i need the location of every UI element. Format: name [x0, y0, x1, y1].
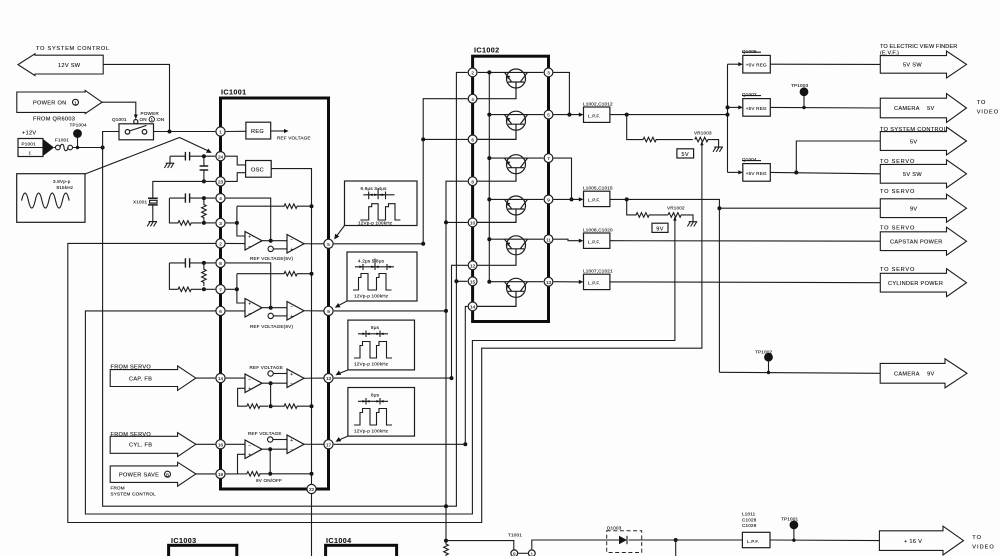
svg-text:−: − [290, 382, 293, 388]
node op1 out [269, 239, 273, 243]
ref voltage input circle section1 [268, 246, 273, 251]
svg-text:12Vp-p 100kHz: 12Vp-p 100kHz [354, 362, 389, 367]
connector arrow 9V to servo [880, 189, 967, 222]
wire pin13 to LPF4 [554, 281, 581, 283]
svg-text:C1028: C1028 [742, 517, 757, 522]
svg-text:9: 9 [513, 551, 516, 556]
test point TP1001 [781, 517, 799, 542]
wire cylinder power [610, 281, 880, 284]
svg-text:+: + [248, 234, 251, 240]
connector arrow cylinder power [880, 267, 967, 297]
CYL.FB op-amp U1G [245, 440, 262, 459]
svg-text:−: − [290, 448, 293, 454]
svg-text:10: 10 [470, 221, 476, 226]
wire pin5 to LPF1 [554, 114, 581, 116]
svg-text:17: 17 [326, 442, 332, 447]
svg-text:L.P.F.: L.P.F. [747, 539, 759, 544]
svg-text:B: B [166, 472, 169, 477]
svg-text:24: 24 [218, 154, 224, 159]
pin 9 [324, 306, 333, 315]
svg-text:TP1003: TP1003 [791, 83, 809, 88]
svg-text:2: 2 [219, 242, 222, 247]
svg-text:+5V REG: +5V REG [746, 106, 767, 111]
resistor CAP.FB second [271, 404, 310, 409]
regulator Q1004 [728, 157, 771, 181]
resistor to VR1002 [627, 199, 668, 217]
svg-text:13: 13 [326, 376, 332, 381]
scope waveform box 8us lower [348, 388, 415, 437]
connector arrow CAP.FB from servo [110, 364, 215, 390]
pin 14 [216, 374, 225, 383]
capacitor C at pin24 with ground [170, 152, 215, 161]
resistor at pin7 row [169, 263, 215, 292]
svg-text:FROM SERVO: FROM SERVO [111, 432, 152, 438]
ground at VR1003 [711, 140, 723, 152]
svg-text:7: 7 [219, 287, 222, 292]
node op5 out [269, 381, 273, 385]
capacitor at pin4 [169, 193, 215, 202]
filter L1008,C1020 L.P.F. [583, 228, 613, 249]
connector arrow POWER ON from QR6003 [17, 90, 102, 122]
transformer T1001 [508, 533, 535, 556]
pin 24 [216, 152, 225, 161]
resistor vertical pin8-pin7 [202, 263, 207, 286]
svg-text:Q1001: Q1001 [112, 117, 127, 122]
svg-text:7: 7 [547, 156, 550, 161]
connector arrow 5V to system control [880, 127, 967, 155]
resistor to VR1003 [627, 115, 693, 142]
svg-text:22: 22 [309, 487, 315, 492]
ref voltage input circle section2 [268, 313, 273, 318]
svg-text:TP1001: TP1001 [781, 517, 799, 522]
svg-text:5V SW: 5V SW [903, 172, 922, 178]
regulator Q1002 [728, 92, 771, 116]
node +12V junction [101, 146, 105, 150]
IC1002 pin 2 [468, 68, 477, 77]
svg-text:Q1002: Q1002 [742, 92, 757, 97]
svg-text:12Vp-p 100kHz: 12Vp-p 100kHz [358, 221, 393, 226]
wire pin24 to OSC [226, 156, 246, 165]
svg-text:5: 5 [327, 242, 330, 247]
svg-text:REG: REG [251, 129, 264, 135]
resistor to T1001 primary [444, 541, 449, 556]
IC1002 pin 6 [468, 135, 477, 144]
pin 17 [324, 440, 333, 449]
filter L1007,C1021 L.P.F. [583, 269, 613, 290]
IC1003 box [169, 536, 237, 556]
svg-text:8: 8 [219, 261, 222, 266]
wire pin8 feed to comparator output [226, 263, 271, 308]
svg-text:CAMERA 9V: CAMERA 9V [894, 372, 935, 378]
svg-text:+: + [290, 247, 293, 253]
connector arrow CAMERA 5V [880, 94, 999, 123]
svg-text:19: 19 [218, 472, 224, 477]
wire pin23 to OSC [226, 173, 246, 182]
svg-text:9: 9 [547, 198, 550, 203]
svg-text:L1011: L1011 [742, 512, 756, 517]
svg-text:D1003: D1003 [607, 525, 622, 530]
internal emitter bus [488, 72, 490, 281]
svg-text:23: 23 [218, 180, 224, 185]
transistor Q-D row4 [467, 196, 543, 222]
svg-text:TO ELECTRIC VIEW FINDER: TO ELECTRIC VIEW FINDER [880, 44, 957, 50]
pointer to pin 13 [339, 370, 348, 374]
svg-text:TO SERVO: TO SERVO [880, 267, 915, 273]
CYL.FB comparator: wire pin16 to minus [226, 443, 245, 445]
IC1002 pin 8 [468, 177, 477, 186]
label 9V box [652, 223, 668, 232]
connector arrow +16V [879, 526, 994, 555]
wire pin9 to LPF2 [554, 198, 581, 200]
svg-text:REF VOLTAGE(5V): REF VOLTAGE(5V) [250, 256, 293, 261]
wire LPF2 output to 9V node [610, 199, 720, 372]
svg-text:13: 13 [546, 280, 552, 285]
pin 1 [216, 127, 225, 136]
wire LPF1 output to regulator rail [610, 64, 728, 172]
svg-text:+: + [290, 372, 293, 378]
ground at VR1002 [687, 215, 698, 227]
wire +12V rail up into switch [103, 132, 119, 148]
pin 19 [216, 469, 225, 478]
wire op4 out to pin9 [304, 310, 324, 312]
wire 12V supply to IC1002 pins 2 and 15 [456, 72, 467, 281]
scope waveform box 4.2us 5.8us [347, 252, 417, 301]
svg-text:3: 3 [219, 221, 222, 226]
svg-text:−: − [248, 443, 251, 449]
svg-text:15: 15 [470, 279, 476, 284]
wire left long A from pin2 to VR1003 wiper return [68, 142, 702, 523]
capacitor between pin24 and pin23 [200, 156, 209, 183]
svg-text:X1001: X1001 [133, 200, 148, 205]
wire left long B from pin6 to VR1002 wiper return [85, 217, 675, 514]
svg-text:1: 1 [531, 551, 534, 556]
wire pin13 to IC1002 pin 12 [334, 265, 468, 378]
svg-text:SYSTEM CONTROL: SYSTEM CONTROL [111, 491, 157, 496]
svg-text:VIDEO: VIDEO [972, 545, 994, 551]
test point TP1004 [70, 123, 88, 150]
svg-text:4: 4 [471, 97, 474, 102]
ground at X1001 [147, 222, 157, 227]
transistor Q-F row6 [467, 278, 543, 306]
svg-text:L1002,C1012: L1002,C1012 [583, 102, 613, 107]
svg-text:+5V REG: +5V REG [746, 171, 767, 176]
wire camera 9V [719, 372, 880, 373]
pin 6 [216, 306, 225, 315]
crystal X1001 [133, 181, 215, 221]
svg-text:Q1004: Q1004 [742, 157, 757, 162]
svg-text:CAP. FB: CAP. FB [129, 377, 152, 383]
svg-text:−: − [248, 311, 251, 317]
comparator section 1: pin3 plus-loop [226, 206, 245, 236]
svg-text:REF VOLTAGE: REF VOLTAGE [277, 136, 311, 141]
svg-text:REF VOLTAGE: REF VOLTAGE [248, 431, 282, 436]
test point TP1002 [755, 350, 773, 375]
svg-text:−: − [248, 244, 251, 250]
svg-text:VIDEO: VIDEO [977, 110, 999, 116]
wire 9V to servo arrow [719, 207, 880, 209]
wire pin2 into op-amp minus [226, 242, 245, 244]
svg-text:+: + [290, 438, 293, 444]
svg-text:+ 16 V: + 16 V [904, 539, 922, 545]
svg-text:CAPSTAN POWER: CAPSTAN POWER [890, 240, 943, 246]
svg-text:TO SERVO: TO SERVO [880, 189, 915, 195]
node 12V SW junction [168, 130, 172, 134]
wire 12V SW to Q1001 output node [103, 64, 169, 131]
fuse F1001 [54, 138, 103, 151]
wire Q1001 to pin 1 [154, 131, 216, 133]
wire POWER ON to switch Q1001 [102, 102, 136, 116]
IC1004 box [326, 536, 397, 556]
oscillator block OSC [246, 161, 272, 178]
filter L1002,C1012 L.P.F. [583, 102, 613, 123]
label 5V box [677, 149, 694, 158]
wire pin1 to REG [226, 130, 246, 132]
svg-text:12Vp-p 100kHz: 12Vp-p 100kHz [354, 294, 389, 299]
svg-text:+5V REG: +5V REG [746, 63, 767, 68]
wire pin11 to LPF3 [554, 239, 581, 241]
svg-text:+: + [248, 453, 251, 459]
svg-text:IC1002: IC1002 [474, 46, 500, 55]
wire op8 out to pin17 [304, 443, 324, 445]
wire pin7 join pin9 feed [554, 158, 572, 199]
svg-text:L1005,C1015: L1005,C1015 [583, 186, 613, 191]
pointer to pin 17 [339, 436, 348, 440]
pin 8 [216, 258, 225, 267]
svg-text:VR1002: VR1002 [667, 206, 685, 211]
scope waveform box 6.6us 3.4us [345, 181, 418, 226]
test point TP1003 [791, 83, 809, 109]
transistor Q-A row1 [467, 69, 543, 99]
svg-text:14: 14 [470, 305, 476, 310]
svg-text:TP1004: TP1004 [70, 123, 88, 128]
pin 22 [307, 484, 316, 493]
svg-text:CAMERA 5V: CAMERA 5V [894, 106, 935, 112]
svg-text:815kHz: 815kHz [57, 185, 74, 190]
svg-text:−: − [290, 237, 293, 243]
regulator block REG [246, 122, 311, 140]
pin 3 [216, 218, 225, 227]
resistor vertical pin4-pin3 [202, 198, 207, 221]
connector arrow 12V SW to system control [18, 46, 110, 76]
wire pin5 to IC1002 pins 4 and 6 [334, 99, 468, 244]
pin 5 [324, 239, 333, 248]
svg-text:9: 9 [327, 309, 330, 314]
pin 2 [216, 239, 225, 248]
svg-text:16: 16 [218, 442, 224, 447]
wire Q1004 output split [770, 141, 880, 174]
svg-text:8μs: 8μs [371, 325, 380, 330]
IC1002 pin 15 [468, 277, 477, 286]
pin 7 [216, 285, 225, 294]
wire op2 out to pin5 [304, 243, 324, 245]
hysteresis resistor rail section1 [237, 204, 310, 209]
wire capstan power [610, 240, 880, 243]
pin 13 [324, 374, 333, 383]
CAP.FB comparator: wire pin14 to minus [226, 377, 245, 379]
svg-text:TO SYSTEM CONTROL: TO SYSTEM CONTROL [36, 46, 110, 52]
svg-text:9V ON/OFF: 9V ON/OFF [256, 478, 282, 483]
potentiometer VR1003 [694, 130, 712, 145]
resistor at pin3 row [169, 198, 215, 225]
transistor Q-B row2 [467, 111, 543, 139]
filter L1011 C1028 C1029 L.P.F. [676, 512, 880, 548]
svg-text:11: 11 [546, 237, 551, 242]
svg-text:FROM: FROM [111, 486, 125, 491]
node op3 out [269, 306, 273, 310]
IC1002 pin 4 [468, 94, 477, 103]
svg-text:CYLINDER POWER: CYLINDER POWER [888, 281, 943, 287]
svg-text:+: + [248, 301, 251, 307]
wire OSC output bus down to pin22 [271, 169, 311, 556]
capacitor at pin8 [169, 258, 215, 267]
CAP.FB op-amp U1F [287, 369, 304, 388]
IC1002 pin 7 [544, 154, 553, 163]
svg-text:6: 6 [219, 309, 222, 314]
svg-text:9V: 9V [656, 226, 664, 232]
IC1002 pin 13 [544, 277, 553, 286]
wire pin3 join pin5 feed [554, 72, 570, 114]
svg-text:−: − [290, 304, 293, 310]
pointer from waveform box to pin 24 [85, 138, 210, 175]
IC1002 pin 9 [544, 195, 553, 204]
svg-text:POWER ON: POWER ON [33, 101, 66, 107]
svg-text:5: 5 [547, 113, 550, 118]
connector arrow 5V SW to EVF [880, 44, 967, 78]
svg-text:12Vp-p 100kHz: 12Vp-p 100kHz [354, 429, 389, 434]
pin 23 [216, 177, 225, 186]
svg-text:3: 3 [547, 71, 550, 76]
svg-text:C1029: C1029 [742, 523, 757, 528]
scope waveform box 8us upper [348, 320, 415, 370]
svg-text:IC1001: IC1001 [221, 88, 247, 97]
svg-text:5V: 5V [682, 152, 690, 158]
potentiometer VR1002 [667, 206, 687, 221]
svg-text:REF VOLTAGE(6V): REF VOLTAGE(6V) [250, 324, 293, 329]
wire pin6 into op-amp minus [226, 310, 245, 312]
svg-text:5V SW: 5V SW [903, 63, 922, 69]
op-amp U1C [245, 299, 262, 318]
wire op6 out to pin13 [304, 377, 324, 379]
IC1002 pin 12 [468, 261, 477, 270]
svg-text:L.P.F.: L.P.F. [588, 281, 600, 286]
connector arrow 5V SW to servo [880, 159, 967, 188]
IC1002 pin 11 [544, 235, 553, 244]
svg-text:12V SW: 12V SW [58, 63, 81, 69]
wire to transformer T1001 [446, 541, 514, 550]
wire pin9 to IC1002 pins 8 and 10 and down to T1001 [334, 181, 468, 540]
svg-text:TO SERVO: TO SERVO [880, 226, 915, 232]
svg-text:L.P.F.: L.P.F. [588, 198, 600, 203]
svg-text:CYL. FB: CYL. FB [129, 443, 152, 449]
node 16V junction [674, 538, 678, 542]
svg-text:REF VOLTAGE: REF VOLTAGE [250, 365, 284, 370]
CAP.FB plus loop and feedback resistor [238, 388, 268, 408]
svg-text:4: 4 [219, 196, 222, 201]
connector arrow CYL.FB from servo [110, 432, 215, 457]
IC1002 pin 14 [468, 302, 477, 311]
svg-text:12: 12 [470, 263, 476, 268]
CYL.FB plus loop and 9V ON/OFF rail [226, 454, 268, 476]
IC1002 pin 3 [544, 68, 553, 77]
connector arrow POWER SAVE [110, 462, 215, 496]
svg-text:1: 1 [219, 130, 222, 135]
pin 4 [216, 194, 225, 203]
svg-text:−: − [248, 377, 251, 383]
svg-text:ON: ON [140, 117, 147, 122]
svg-text:+: + [248, 387, 251, 393]
pin 16 [216, 440, 225, 449]
svg-text:L1008,C1020: L1008,C1020 [583, 228, 613, 233]
svg-text:IC1003: IC1003 [171, 536, 197, 545]
svg-text:POWER SAVE: POWER SAVE [119, 472, 159, 478]
svg-text:L1007,C1021: L1007,C1021 [583, 269, 613, 274]
wire pin17 to IC1002 pin 14 [334, 306, 468, 444]
wire pin4 feed to comparator output [226, 198, 271, 241]
regulator Q1005 [728, 49, 771, 73]
node op7 out [268, 447, 272, 451]
connector arrow capstan power [880, 226, 967, 256]
comparator section 2: pin7 plus-loop [226, 274, 245, 303]
IC1002 pin 10 [468, 218, 477, 227]
IC1002 pin 5 [544, 110, 553, 119]
wire Q1002 to camera 5V arrow [770, 106, 880, 109]
wire 12V long C down and to T1001 [103, 148, 457, 507]
svg-text:6: 6 [471, 138, 474, 143]
svg-text:+: + [290, 314, 293, 320]
CAP.FB op-amp U1E [245, 374, 262, 393]
svg-text:IC1004: IC1004 [326, 536, 352, 545]
wire Q1005 to EVF arrow [770, 63, 880, 65]
switch Q1001 power on [112, 111, 164, 140]
svg-text::ON: :ON [156, 117, 165, 122]
filter L1005,C1015 L.P.F. [583, 186, 613, 207]
svg-text:TO: TO [977, 100, 987, 106]
svg-text:+12V: +12V [22, 131, 36, 137]
pointer to pin 5 [337, 226, 345, 237]
svg-text:T1001: T1001 [508, 533, 522, 538]
op-amp U1B [287, 235, 304, 254]
svg-text:5V: 5V [910, 139, 917, 145]
svg-text:1: 1 [29, 151, 32, 156]
pointer to pin 9 [338, 301, 347, 306]
op-amp U1D [287, 302, 304, 321]
connector P1001 +12V [18, 131, 54, 157]
transistor Q-C row3 [467, 155, 543, 182]
wire T1001 pin1 to rectifier [532, 540, 604, 549]
transistor Q-E row5 [467, 236, 543, 265]
svg-text:4.2μs 5.8μs: 4.2μs 5.8μs [358, 258, 385, 263]
svg-text:2: 2 [471, 71, 474, 76]
svg-text:3.8Vp-p: 3.8Vp-p [53, 179, 71, 184]
svg-text:VR1003: VR1003 [694, 130, 712, 135]
connector arrow CAMERA 9V [880, 359, 967, 388]
svg-text:L.P.F.: L.P.F. [588, 114, 600, 119]
svg-text:9V: 9V [910, 206, 917, 212]
svg-text:L.P.F.: L.P.F. [588, 240, 600, 245]
svg-text:6.6μs 3.4μs: 6.6μs 3.4μs [361, 186, 388, 191]
svg-text:POWER: POWER [141, 111, 160, 116]
svg-text:8: 8 [471, 179, 474, 184]
ground at pin24 cap [164, 156, 174, 168]
scope waveform box 3.8Vp-p 815kHz [17, 174, 85, 223]
diode D1003 [604, 525, 676, 552]
svg-text:OSC: OSC [251, 168, 264, 174]
svg-text:TO: TO [972, 535, 982, 541]
svg-text:8μs: 8μs [371, 392, 380, 397]
svg-text:P1001: P1001 [22, 141, 37, 146]
op-amp U1A [245, 232, 262, 251]
svg-text:Q1005: Q1005 [742, 49, 757, 54]
